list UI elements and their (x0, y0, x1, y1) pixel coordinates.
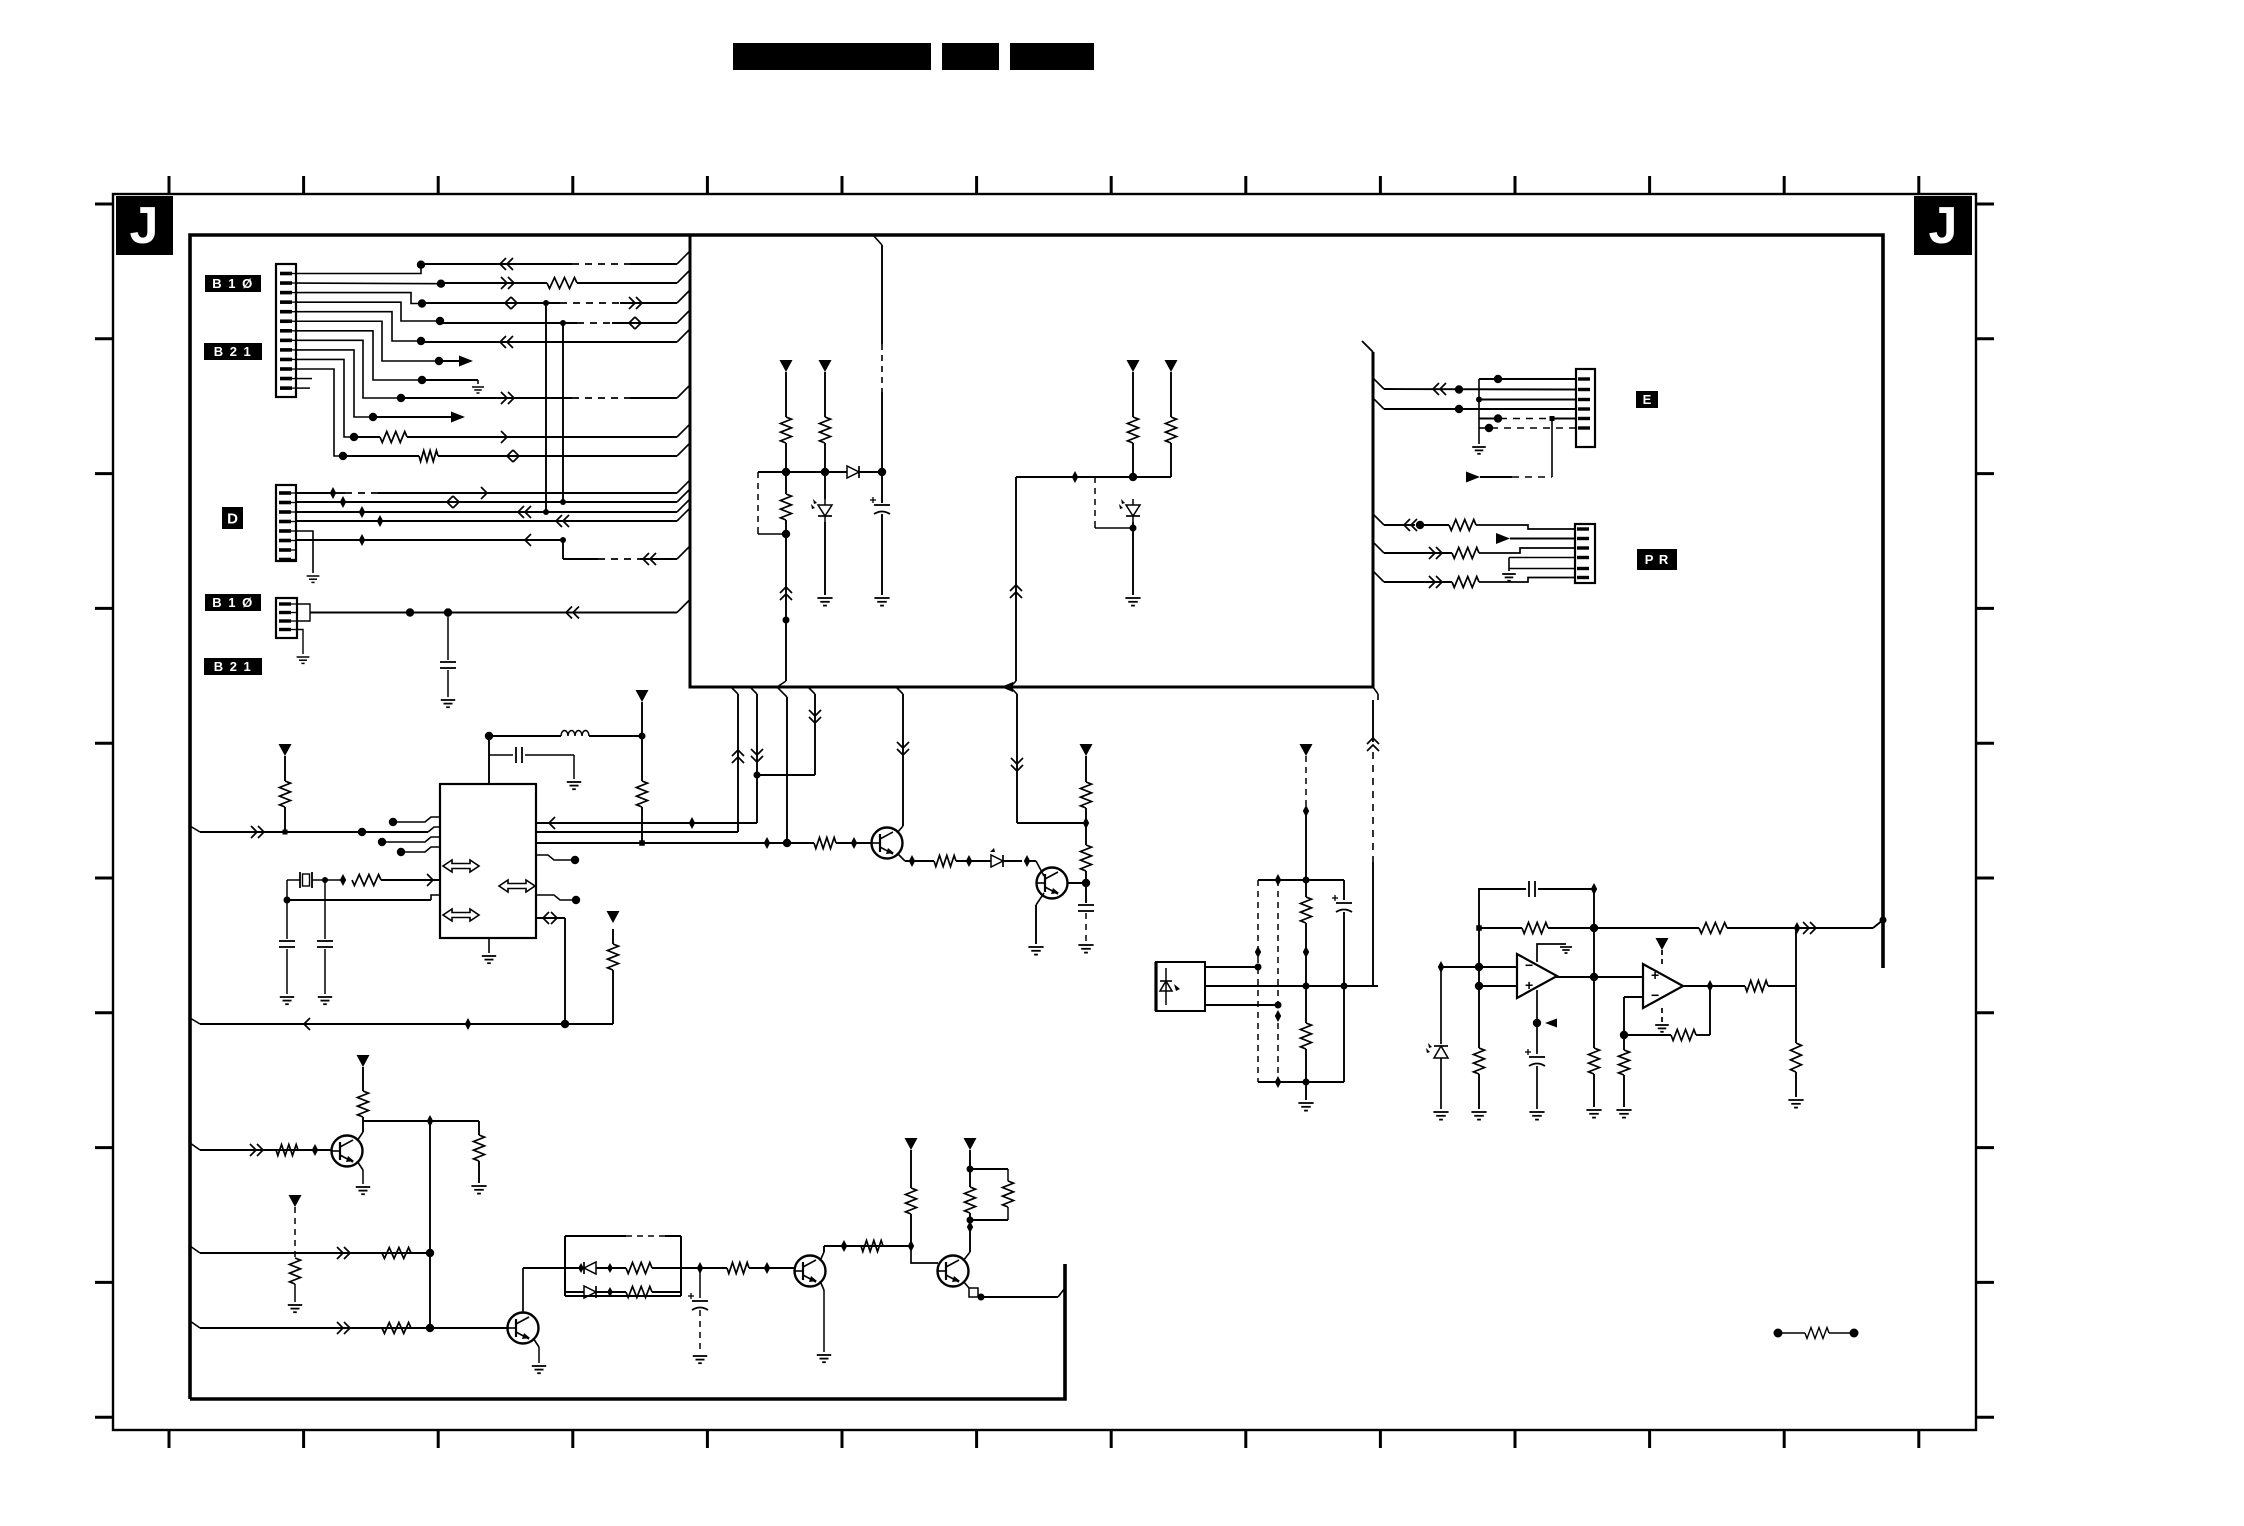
svg-text:B 1 Ø: B 1 Ø (212, 595, 253, 610)
svg-text:E: E (1643, 392, 1652, 407)
svg-text:B 1 Ø: B 1 Ø (212, 276, 253, 291)
svg-text:−: − (1525, 957, 1533, 973)
svg-text:J: J (130, 197, 159, 255)
svg-text:P R: P R (1645, 552, 1669, 567)
svg-text:B 2 1: B 2 1 (214, 344, 253, 359)
svg-text:B 2 1: B 2 1 (214, 659, 253, 674)
svg-text:J: J (1929, 197, 1958, 255)
svg-text:+: + (1525, 977, 1533, 993)
svg-text:D: D (227, 510, 238, 527)
svg-text:+: + (1651, 967, 1659, 983)
svg-text:−: − (1651, 987, 1659, 1003)
